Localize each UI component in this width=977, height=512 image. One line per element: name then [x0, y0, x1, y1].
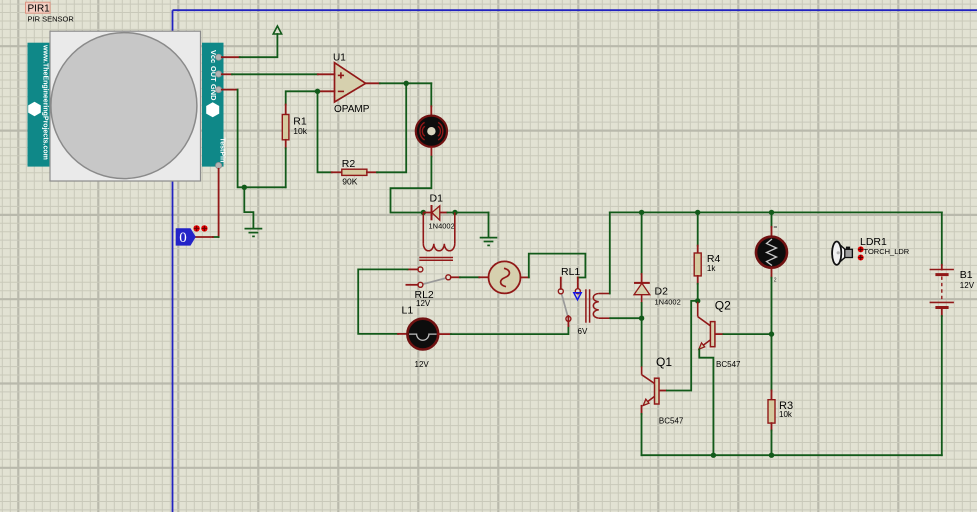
svg-text:TORCH_LDR: TORCH_LDR	[864, 247, 910, 256]
buzzer LS1	[416, 116, 447, 147]
wire GND down	[222, 89, 238, 91]
wire node to Q1 base	[641, 318, 643, 366]
transistor Q1	[642, 355, 684, 425]
wire RL2 NC to lamp	[408, 268, 418, 270]
probe marker 2	[201, 225, 207, 231]
svg-text:12V: 12V	[416, 299, 431, 308]
wire Q2 emitter	[699, 349, 713, 455]
node D1 right	[452, 210, 457, 215]
resistor R3	[768, 400, 793, 423]
wire - input to R2	[318, 91, 332, 172]
resistor R4	[694, 253, 720, 276]
torch button +	[858, 246, 864, 252]
wire buzzer bottom	[430, 148, 432, 157]
wire Q1 collector to R4 node	[667, 301, 698, 391]
svg-text:90K: 90K	[342, 176, 357, 186]
resistor R1	[282, 115, 307, 140]
svg-text:R4: R4	[707, 253, 721, 265]
pin op-amp output	[366, 82, 380, 84]
svg-text:U1: U1	[333, 52, 346, 63]
wire OUT to op-amp	[222, 73, 232, 75]
wire to sounder	[430, 83, 432, 106]
PIR sensor module PIR1	[28, 31, 226, 181]
svg-text:BC547: BC547	[716, 360, 741, 369]
wire junction to ground	[244, 187, 253, 228]
LDR pin marks	[774, 226, 777, 228]
ground (D1 side)	[480, 238, 498, 246]
wire RL2 NO stub	[406, 284, 418, 286]
wire D2 to node	[641, 303, 643, 318]
pin - input	[318, 90, 335, 92]
relay coil RL1	[586, 289, 610, 322]
wire TestPin to probe	[218, 169, 220, 237]
node D2/base	[639, 316, 644, 321]
wire Vcc to power	[222, 56, 240, 58]
svg-text:Q2: Q2	[715, 298, 731, 312]
wire coil bottom to D2	[610, 317, 641, 319]
svg-text:1k: 1k	[707, 264, 716, 273]
AC source	[489, 261, 521, 293]
svg-text:BC547: BC547	[659, 417, 684, 426]
svg-text:B1: B1	[960, 269, 973, 281]
diode D1	[423, 192, 454, 230]
PIR1 reference label	[26, 2, 75, 23]
wire rail to B1	[941, 212, 943, 264]
op-amp U1	[333, 52, 370, 115]
svg-text:PIR1: PIR1	[28, 3, 51, 14]
node rail R3	[769, 453, 774, 458]
wire power net	[240, 34, 278, 57]
node rail LDR	[769, 210, 774, 215]
battery B1	[930, 269, 975, 308]
node Q2 collector/R3	[769, 331, 774, 336]
svg-text:R2: R2	[342, 158, 356, 170]
voltage probe 0	[176, 228, 196, 246]
svg-text:L1: L1	[402, 305, 414, 317]
svg-text:0: 0	[179, 230, 187, 246]
svg-text:6V: 6V	[578, 327, 588, 336]
ground (PIR side)	[245, 229, 263, 237]
lamp L1	[402, 305, 439, 369]
wire AC right	[521, 276, 529, 278]
wire R4 bottom	[697, 276, 699, 284]
svg-text:12V: 12V	[415, 360, 430, 369]
node inverting input	[315, 89, 320, 94]
wire top rail	[610, 211, 942, 213]
node rail D2	[639, 210, 644, 215]
wire Q2 collector	[723, 333, 771, 335]
transistor Q2	[698, 298, 741, 369]
pin TestPin	[216, 162, 222, 168]
svg-text:1N4002: 1N4002	[429, 221, 455, 230]
wire L1 right	[438, 333, 451, 335]
node R1/GND junction	[242, 185, 247, 190]
wire LDR bottom	[771, 268, 773, 277]
svg-text:OPAMP: OPAMP	[334, 104, 370, 115]
sheet border	[172, 10, 174, 512]
wire R3 bottom	[771, 423, 773, 430]
relay RL2 switch	[415, 267, 451, 308]
wire bottom rail	[642, 454, 942, 456]
wire - input to R1	[286, 91, 318, 104]
wire RL1 NC stub	[560, 278, 562, 289]
pin Vcc	[216, 54, 222, 60]
svg-text:RL1: RL1	[561, 266, 580, 278]
power symbol	[273, 26, 281, 34]
relay RL1 switch	[558, 266, 588, 336]
diode D2	[634, 283, 681, 307]
torch button -	[858, 255, 864, 261]
wire output net	[380, 82, 432, 84]
wire D1 right	[448, 212, 489, 214]
LDR LDR1	[756, 237, 787, 268]
svg-text:10k: 10k	[779, 410, 793, 419]
pin + input	[318, 73, 335, 75]
svg-text:www.TheEngineeringProjects.com: www.TheEngineeringProjects.com	[42, 44, 49, 160]
resistor R2	[342, 158, 367, 186]
probe marker 1	[193, 225, 199, 231]
node output junction	[404, 81, 409, 86]
svg-text:1N4002: 1N4002	[655, 298, 681, 307]
wire RL2 pole to source	[451, 276, 460, 278]
svg-text:12V: 12V	[960, 281, 975, 290]
wire node to R3	[771, 334, 773, 390]
node rail R4	[695, 210, 700, 215]
wire RL1 pole stub	[567, 316, 569, 321]
pin OUT	[216, 71, 222, 77]
node D1 left	[421, 210, 426, 215]
svg-text:Q1: Q1	[656, 355, 672, 369]
svg-text:TestPin: TestPin	[218, 138, 225, 163]
relay coil RL2	[419, 213, 455, 261]
wire coil top to rail	[609, 212, 611, 293]
svg-text:PIR SENSOR: PIR SENSOR	[28, 14, 75, 23]
node R4/Q2 base	[695, 298, 700, 303]
torch actuator	[832, 242, 852, 265]
RL1 arrow indicator	[574, 293, 581, 300]
wire rail to LDR	[771, 212, 773, 226]
svg-text:2: 2	[774, 278, 777, 284]
wire B1 bottom	[941, 309, 943, 316]
pin GND	[216, 87, 222, 93]
wire Q1 emitter	[641, 406, 643, 414]
wire rail to R4	[697, 212, 699, 245]
svg-text:10k: 10k	[293, 126, 307, 136]
wire rail to D2	[641, 212, 643, 274]
node rail Q2e	[711, 453, 716, 458]
svg-text:D1: D1	[430, 192, 444, 204]
svg-text:GND: GND	[209, 84, 218, 101]
svg-text:D2: D2	[655, 285, 669, 297]
wire R1 bottom	[285, 140, 287, 149]
wire R2 right	[367, 171, 377, 173]
wire to ground	[488, 213, 490, 238]
